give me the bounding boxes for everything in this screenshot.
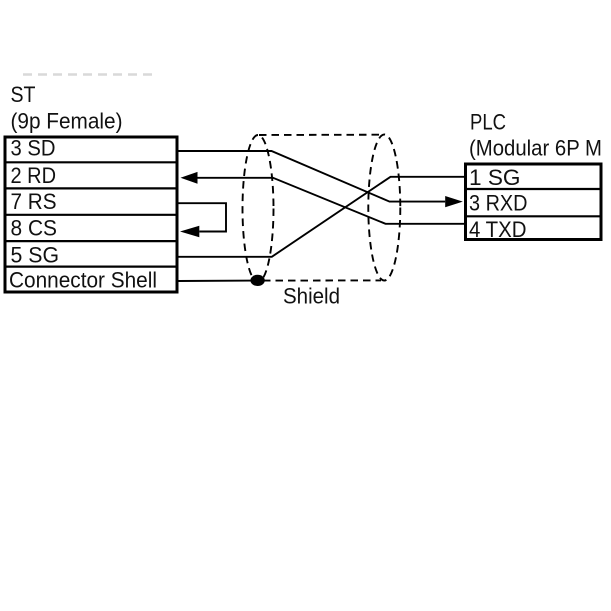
svg-text:5 SG: 5 SG: [11, 243, 60, 268]
cable shield right ellipse: [368, 135, 400, 281]
row divider 5: [7, 266, 176, 268]
row divider 2: [7, 187, 176, 189]
svg-text:1 SG: 1 SG: [469, 165, 521, 190]
PLC row divider 1: [467, 188, 600, 190]
svg-text:Shield: Shield: [283, 284, 340, 309]
cable shield bottom dashed line: [263, 279, 381, 281]
cable shield left ellipse: [243, 135, 274, 282]
svg-text:ST: ST: [11, 82, 36, 107]
wire 7 RS loop to 8 CS: [179, 203, 227, 231]
row divider 4: [7, 240, 176, 242]
PLC row divider 2: [467, 215, 600, 217]
svg-text:4 TXD: 4 TXD: [469, 217, 527, 242]
shield drain dot: [250, 275, 264, 286]
faint erased dashed line artifact: [23, 73, 157, 76]
arrowhead into 3 RXD: [445, 196, 463, 207]
cable shield top dashed line: [259, 134, 383, 136]
row divider 3: [7, 214, 176, 216]
connector box ST (9p Female): [5, 137, 177, 292]
wire connector shell to shield: [179, 280, 258, 283]
arrowhead into 8 CS: [180, 226, 199, 238]
svg-text:(9p Female): (9p Female): [11, 109, 123, 134]
svg-text:8 CS: 8 CS: [11, 216, 58, 241]
svg-text:Connector Shell: Connector Shell: [9, 268, 157, 293]
svg-text:3 SD: 3 SD: [11, 136, 56, 161]
wire 4 TXD to 2 RD: [198, 178, 465, 224]
svg-text:7 RS: 7 RS: [11, 189, 57, 214]
connector box PLC: [466, 164, 602, 240]
wire 3 SD to 3 RXD: [179, 151, 446, 202]
svg-text:(Modular 6P M: (Modular 6P M: [469, 136, 602, 161]
arrowhead into 2 RD: [181, 172, 198, 184]
svg-text:2 RD: 2 RD: [11, 163, 57, 188]
svg-text:PLC: PLC: [470, 110, 506, 135]
svg-text:3 RXD: 3 RXD: [469, 191, 528, 216]
wire 5 SG to 1 SG: [179, 177, 465, 257]
row divider 1: [7, 161, 176, 163]
